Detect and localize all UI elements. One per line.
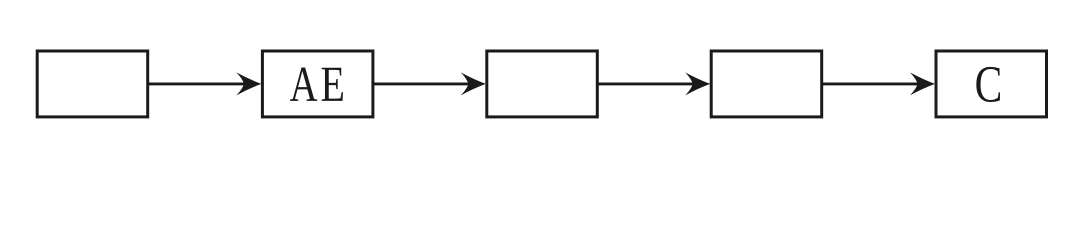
wire arrow 2: box2 to box3 xyxy=(373,72,486,95)
wire arrow 4: box4 to box5 xyxy=(822,72,935,95)
box 1 (stage 1, empty) xyxy=(37,51,148,117)
box 3 (stage 3, empty) xyxy=(487,51,598,117)
box 5 (C) xyxy=(936,51,1047,117)
wire arrow 3: box3 to box4 xyxy=(597,72,710,95)
wire arrow 1: box1 to box2 xyxy=(148,72,262,95)
box 2 (AE) xyxy=(262,51,373,117)
label AE xyxy=(290,68,343,101)
box 4 (stage 4, empty) xyxy=(711,51,822,117)
label C xyxy=(976,67,1000,102)
